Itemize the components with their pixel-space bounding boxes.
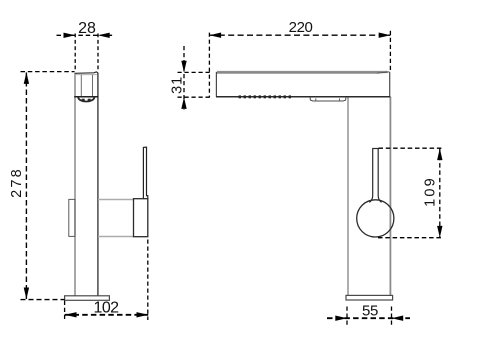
aerator detail ticks xyxy=(82,99,85,102)
aerator teeth under spout xyxy=(239,95,291,98)
handle knob circle xyxy=(357,200,394,237)
55 extension line left xyxy=(346,307,348,327)
handle arm top line (light) xyxy=(98,199,134,201)
28 dimension line xyxy=(57,34,115,36)
28 arrow right xyxy=(98,33,110,38)
spout bottom line xyxy=(216,96,390,98)
109 arrow up xyxy=(437,148,442,160)
column left edge (light) xyxy=(74,74,76,296)
svg-text:102: 102 xyxy=(94,300,120,317)
handle stem (front) xyxy=(369,149,381,203)
31 reference line bottom xyxy=(178,96,211,98)
svg-text:55: 55 xyxy=(362,302,378,319)
svg-text:31: 31 xyxy=(169,76,185,94)
220 extension line left xyxy=(208,33,210,98)
102 extension line left (below base) xyxy=(64,301,66,320)
column left edge (light) xyxy=(347,97,349,295)
base plate (front view) xyxy=(346,295,393,300)
spout top band (thick light) xyxy=(217,71,388,73)
handle arm bottom line (light) xyxy=(98,236,134,238)
svg-text:28: 28 xyxy=(78,20,96,37)
handle stem top cap xyxy=(372,148,379,150)
spout right edge xyxy=(389,72,391,97)
31 arrow bottom xyxy=(181,97,186,109)
inner spout channel right line xyxy=(92,75,94,97)
base plate (side view) xyxy=(65,296,110,301)
inner spout channel left line xyxy=(80,75,82,97)
220 extension line right xyxy=(389,31,391,71)
column right edge (dark) xyxy=(97,73,99,296)
31 dimension vertical line xyxy=(183,46,185,110)
svg-text:278: 278 xyxy=(9,167,25,198)
svg-text:220: 220 xyxy=(289,19,313,36)
31 arrow top xyxy=(181,61,186,73)
spout left edge xyxy=(215,72,217,97)
28 arrow left xyxy=(64,33,76,38)
102 extension line right xyxy=(147,240,149,321)
aerator arc (side) xyxy=(78,97,95,101)
220 dimension line xyxy=(209,34,390,36)
55 extension line right xyxy=(391,307,393,327)
spray head notch left xyxy=(315,98,317,101)
spout tip slant xyxy=(377,72,389,73)
spout underside line xyxy=(74,96,98,98)
278 arrow down xyxy=(24,288,29,300)
109 arrow down xyxy=(437,226,442,238)
278 reference line bottom xyxy=(21,299,65,301)
column right edge xyxy=(389,97,391,295)
svg-text:109: 109 xyxy=(422,176,438,207)
lever (side) xyxy=(143,147,147,199)
55 arrow right (outside pointing left) xyxy=(392,316,404,321)
28 extension line right xyxy=(97,34,99,70)
28 extension line left xyxy=(74,34,76,70)
55 dimension line xyxy=(327,317,410,319)
31 reference line top xyxy=(178,71,211,73)
109 reference line bottom xyxy=(378,237,442,239)
109 dimension vertical line xyxy=(439,149,441,238)
109 reference line top xyxy=(379,147,442,149)
spout top inner line xyxy=(217,72,377,74)
spray head outline under spout xyxy=(310,97,346,101)
handle body box xyxy=(134,199,148,237)
column top rim xyxy=(75,72,99,73)
102 arrow left xyxy=(65,312,77,317)
278 reference line top xyxy=(21,71,75,73)
278 dimension vertical line xyxy=(25,73,27,300)
220 arrow right xyxy=(379,33,391,38)
spray head notch right xyxy=(339,98,341,101)
278 arrow up xyxy=(24,72,29,84)
220 arrow left xyxy=(209,33,221,38)
102 arrow right xyxy=(137,312,149,317)
column top rim second line (light) xyxy=(76,74,97,76)
55 arrow left (outside pointing right) xyxy=(335,316,347,321)
102 dimension line xyxy=(65,314,148,316)
cartridge cover rect (left of column) xyxy=(69,199,75,236)
